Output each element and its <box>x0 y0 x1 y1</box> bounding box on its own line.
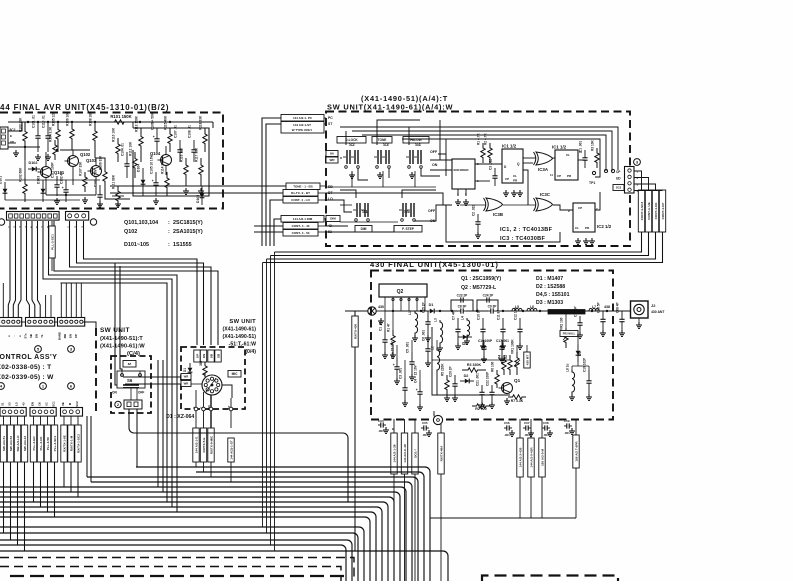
svg-text:C21 .001: C21 .001 <box>476 373 480 386</box>
svg-text:Q1: Q1 <box>514 378 521 383</box>
ground lower <box>444 395 510 408</box>
svg-text:UP: UP <box>196 354 200 358</box>
wire left col <box>385 311 437 382</box>
wire enc pins <box>458 189 466 196</box>
svg-text:W TYPE ONLY: W TYPE ONLY <box>292 128 312 132</box>
ground left col <box>382 352 431 410</box>
label RX/TX-1-M <box>68 425 74 462</box>
resistor R117 33K <box>195 147 204 186</box>
svg-text:4R8: 4R8 <box>432 411 436 417</box>
wire C4 pin1 <box>0 0 1 1</box>
svg-text:EN: EN <box>31 402 35 406</box>
resistor R112 10K <box>129 141 138 178</box>
svg-text:R109 33K: R109 33K <box>99 155 103 170</box>
ic IC1 1/2 b <box>550 145 583 181</box>
svg-text:R114 2.7K: R114 2.7K <box>161 158 165 174</box>
svg-text:Q104: Q104 <box>150 151 161 156</box>
resistor R4 <box>498 355 507 375</box>
resistor R114 2.7K <box>161 158 170 196</box>
switch S5 <box>399 203 415 221</box>
svg-text:RX/TX-48A: RX/TX-48A <box>440 445 444 462</box>
switch S1 <box>353 203 369 221</box>
svg-text:C6 .001: C6 .001 <box>422 330 426 341</box>
wire bus line y492 <box>0 492 400 581</box>
svg-text:SW-A/4-43: SW-A/4-43 <box>23 436 27 452</box>
wire g3c <box>77 462 79 497</box>
svg-text:SC2: SC2 <box>75 401 79 407</box>
svg-text:430 ANT: 430 ANT <box>651 310 665 314</box>
encoder U1 <box>452 159 479 196</box>
label TONE-1-EB <box>286 183 320 190</box>
ground input <box>378 318 384 324</box>
svg-text:R111 68K: R111 68K <box>112 174 116 189</box>
svg-text:PLL-3-EN: PLL-3-EN <box>32 436 36 451</box>
pin EB <box>328 185 333 189</box>
capacitor C24 2P <box>477 294 498 311</box>
resistor R3 330K <box>462 363 486 372</box>
svg-text:PLL-3-5C: PLL-3-5C <box>46 436 50 450</box>
wire sw mid runs <box>340 158 600 222</box>
wire LO rail <box>326 200 352 212</box>
svg-text:ON: ON <box>432 163 438 167</box>
label CONT-4-CP <box>659 190 665 232</box>
svg-text:R2: R2 <box>504 355 508 359</box>
resistor R104 3.3K <box>49 126 58 160</box>
svg-text:Q102: Q102 <box>80 152 91 157</box>
svg-text:R116 10K: R116 10K <box>180 147 184 162</box>
wire c4 right feeds <box>158 360 163 492</box>
svg-text:R117 33K: R117 33K <box>195 147 199 162</box>
wire dist h2 <box>77 221 204 345</box>
svg-text:C14 5P: C14 5P <box>574 305 578 317</box>
svg-text:DN: DN <box>35 334 39 338</box>
capacitor C17 .001 <box>496 339 509 356</box>
wire top rail 144 <box>8 122 213 128</box>
label 144A/2-1-ST <box>281 122 324 134</box>
transistor Q1 430 <box>499 378 521 394</box>
svg-text:VR1 100K: VR1 100K <box>511 339 515 354</box>
pin UD <box>616 177 621 181</box>
board outline SW UNIT C/4 <box>111 356 151 413</box>
svg-text:R107 33K: R107 33K <box>79 161 83 176</box>
diode D104 <box>137 164 146 196</box>
ground IC2 <box>575 238 595 244</box>
svg-text:CL: CL <box>513 174 517 178</box>
label 144A/2-1-DIM <box>281 216 324 223</box>
wire K down a <box>195 462 197 467</box>
ground Q103 area <box>35 154 121 207</box>
wire bus line y512 <box>0 512 376 581</box>
svg-text:C1 .001: C1 .001 <box>579 141 583 152</box>
svg-text:FR3 NULL: FR3 NULL <box>563 332 576 336</box>
text E 8 labels <box>392 418 463 431</box>
svg-text:CP: CP <box>557 174 561 178</box>
diode D1 <box>183 363 192 377</box>
label RX/TX-48A <box>438 433 444 474</box>
svg-text:CONT-4-CP: CONT-4-CP <box>661 203 665 220</box>
svg-text:STx: STx <box>24 333 28 339</box>
text ON S4 <box>432 163 438 167</box>
capacitor C25 2P <box>422 301 431 335</box>
wire y518 run <box>430 518 576 581</box>
svg-text:CONT-4- UE: CONT-4- UE <box>647 202 651 220</box>
connector 430 input <box>368 305 384 315</box>
diode D105 <box>196 186 204 205</box>
svg-text:L3: L3 <box>434 318 438 322</box>
wire strip1 down <box>0 0 1 1</box>
svg-text:C19 102P: C19 102P <box>583 357 587 372</box>
terminal mark 3 <box>634 159 641 166</box>
resistor R2 430 <box>504 355 512 375</box>
svg-text:C111 100P: C111 100P <box>51 162 55 178</box>
svg-text:L2: L2 <box>431 346 435 350</box>
svg-text:390: 390 <box>199 360 203 366</box>
svg-text:TONE: TONE <box>378 138 387 142</box>
svg-text:11: 11 <box>550 173 553 177</box>
svg-text:2SC1815(Y): 2SC1815(Y) <box>173 220 203 226</box>
board edge dashed A <box>0 558 354 582</box>
svg-text:+: + <box>153 135 155 139</box>
capacitor C08 4P <box>616 301 625 330</box>
svg-text:C9 3P: C9 3P <box>488 305 498 309</box>
svg-text:TP1: TP1 <box>589 181 595 185</box>
stripline <box>548 310 585 315</box>
capacitor C13 5P <box>597 301 606 330</box>
capacitor C19 102P <box>583 357 592 394</box>
svg-text:Q1 : 2SC1959(Y): Q1 : 2SC1959(Y) <box>461 276 501 282</box>
capacitor C05 .001 <box>421 421 432 437</box>
ground C16 C17 <box>481 356 505 362</box>
wire bundle down b <box>266 259 268 533</box>
svg-text:(X41-1490-61):W: (X41-1490-61):W <box>100 344 145 350</box>
svg-text:WR: WR <box>184 382 189 386</box>
svg-text:F. STEP: F. STEP <box>402 227 415 231</box>
label PLL-2-SC1 <box>49 226 55 258</box>
wire S4 net <box>409 127 446 176</box>
wire PC feed <box>262 118 281 246</box>
svg-text:PLL-2-SC1: PLL-2-SC1 <box>51 234 55 250</box>
resistor R109 33K <box>99 155 108 192</box>
terminal mark 6 <box>68 383 75 390</box>
svg-text:144 A/2-1-ST: 144 A/2-1-ST <box>293 123 311 127</box>
wire g2a <box>33 462 35 502</box>
svg-text:R3 330K: R3 330K <box>467 363 482 367</box>
svg-text::: : <box>168 229 170 235</box>
svg-text:C23 2P: C23 2P <box>457 294 469 298</box>
wire ctrl right pair <box>87 416 91 482</box>
svg-text:C108 .01: C108 .01 <box>188 125 192 138</box>
svg-text:C104 .01: C104 .01 <box>121 143 125 156</box>
label SW-A/4-53 <box>7 425 13 462</box>
svg-text:C06: C06 <box>504 421 510 425</box>
pin DIM <box>326 216 340 222</box>
ground encoder <box>455 199 469 205</box>
board outline SW UNIT D/4 <box>181 347 245 409</box>
svg-text:C103 .1 50V: C103 .1 50V <box>94 168 98 187</box>
resistor R1 4.7K <box>477 133 486 163</box>
switch S2 <box>343 142 359 168</box>
wire RF rail <box>385 310 631 312</box>
board outline bottom-left unit <box>10 576 345 581</box>
svg-text:SW-A/4-51: SW-A/4-51 <box>2 436 6 452</box>
xor gate IC3A <box>534 152 553 172</box>
wire sw top runs <box>340 127 618 177</box>
pin 53 <box>328 230 332 234</box>
svg-text:C08 4P: C08 4P <box>616 301 620 313</box>
unit title SW UNIT D/4 <box>223 319 257 355</box>
svg-text:C09: C09 <box>564 419 570 423</box>
resistor R107 33K <box>79 161 88 192</box>
pin BT <box>328 191 333 195</box>
svg-text:RX/TX-430: RX/TX-430 <box>354 324 358 340</box>
wire bus line y497 <box>0 497 394 581</box>
resistor R111 68K <box>112 174 121 207</box>
label CONT-4-UE <box>645 190 651 232</box>
unit title SW UNIT C/4 <box>100 327 145 357</box>
label RX/TX-9-MIC <box>208 428 214 462</box>
svg-text:CONT- 4 - LO: CONT- 4 - LO <box>291 198 310 202</box>
resistor R101 150K <box>108 114 134 124</box>
label 144A/2-3-435 <box>517 438 523 477</box>
label RX/TX-430 <box>352 316 358 347</box>
capacitor C9 3P <box>488 305 498 314</box>
wire input stub <box>345 310 385 312</box>
svg-text:C3 .001: C3 .001 <box>399 368 403 379</box>
resistor R103 33K <box>19 117 28 160</box>
text OFF S5 <box>428 209 436 213</box>
resistor R6 100 <box>491 361 500 388</box>
svg-text:L1: L1 <box>408 311 412 315</box>
svg-text:MR: MR <box>63 334 67 338</box>
svg-text:L7: L7 <box>592 305 596 309</box>
terminal mark 20 <box>0 219 5 225</box>
pin ST <box>328 122 333 126</box>
pin labels control top <box>7 332 78 340</box>
capacitor C108 .01 <box>188 125 197 162</box>
svg-text:C04: C04 <box>378 419 384 423</box>
pin numbers strip1 <box>7 226 56 228</box>
vr VR1 100K <box>511 339 521 375</box>
wire to J2 <box>613 310 631 312</box>
svg-text:VR2 100: VR2 100 <box>560 317 564 330</box>
svg-text:SB: SB <box>29 334 33 338</box>
svg-text:D2 : 1S2588: D2 : 1S2588 <box>536 284 565 290</box>
label PLL-3-CK <box>37 425 43 462</box>
wire 53 feed <box>254 231 283 233</box>
capacitor C107 .01 <box>174 125 183 162</box>
wire LO feed <box>270 200 283 246</box>
svg-text:R101 150K: R101 150K <box>110 114 131 119</box>
svg-text:D3 : M1303: D3 : M1303 <box>536 300 563 306</box>
wire 144 misc <box>95 158 130 199</box>
wire IC3A to IC1b <box>552 157 555 159</box>
pin 43 <box>328 224 332 228</box>
capacitor C10 3P <box>477 308 486 343</box>
svg-text:43: 43 <box>22 402 26 406</box>
svg-text:430 MT: 430 MT <box>526 355 530 366</box>
wire DIM feed <box>274 219 281 246</box>
connector control bottom R <box>61 408 83 417</box>
svg-text:R112 10K: R112 10K <box>129 141 133 156</box>
svg-text:IC3B: IC3B <box>493 212 503 217</box>
coil L1 <box>408 311 418 335</box>
label D-LOCK S2 <box>337 137 366 144</box>
svg-text:CONT-4-SC3: CONT-4-SC3 <box>640 202 644 221</box>
svg-text:Q102: Q102 <box>124 229 137 235</box>
connector 144 strip2 <box>66 212 89 221</box>
testpoint pads <box>604 169 614 172</box>
label SW-A/4-51 <box>0 425 6 462</box>
pin PC <box>328 116 333 120</box>
svg-text:53: 53 <box>8 402 12 406</box>
wire xor feed <box>446 139 560 242</box>
bushing 4R8 <box>432 411 443 425</box>
label 144A/2-1-38 <box>391 433 397 474</box>
ground C08 4P <box>619 330 625 336</box>
switch S3 <box>374 142 390 168</box>
svg-text:L6: L6 <box>530 305 534 309</box>
svg-text:D-LOCK: D-LOCK <box>345 138 358 142</box>
connector 8C2 <box>0 127 16 149</box>
unit title 144 FINAL AVR UNIT <box>0 103 169 112</box>
wire g1c <box>17 462 19 545</box>
svg-text:C105 10 16V: C105 10 16V <box>150 155 154 174</box>
label CONT-4-LO <box>283 197 318 204</box>
svg-text:L4: L4 <box>461 316 465 320</box>
svg-text:ON: ON <box>112 391 117 395</box>
svg-text:144 A/2-3-435: 144 A/2-3-435 <box>519 447 523 467</box>
capacitor C04 .001 <box>378 419 389 433</box>
wire encoder out <box>475 164 502 181</box>
board outline 430 FINAL UNIT <box>371 271 613 420</box>
wire mic right <box>222 385 232 398</box>
board outline SW UNIT A/4 <box>326 112 630 247</box>
svg-text:D1 : M1407: D1 : M1407 <box>536 276 563 282</box>
svg-text:144 A/2-1-E: 144 A/2-1-E <box>195 437 199 454</box>
svg-text:CP: CP <box>578 206 582 210</box>
wire BT rail <box>326 193 443 205</box>
capacitor C12 12P <box>514 307 523 343</box>
wire vr stub <box>517 345 527 352</box>
svg-text:DIM: DIM <box>330 217 336 221</box>
pin labels D4 top <box>194 350 221 362</box>
svg-text:SC1: SC1 <box>52 401 56 407</box>
svg-text:DIM: DIM <box>361 227 367 231</box>
svg-text:144 A/2-C-48: 144 A/2-C-48 <box>403 444 407 463</box>
wire ST feed <box>266 124 281 246</box>
text OFF S4 <box>430 150 438 154</box>
svg-text:SW UNIT: SW UNIT <box>229 319 256 325</box>
svg-text:OFF: OFF <box>138 391 144 395</box>
wire bundle down d <box>274 252 276 551</box>
svg-text:C07: C07 <box>524 421 530 425</box>
transistor Q104 <box>150 151 172 166</box>
wire g1b <box>10 462 12 540</box>
coil L5 <box>512 305 522 311</box>
capacitor C111 100P <box>51 162 60 196</box>
wire RXTX430 <box>355 311 368 551</box>
diode D3 <box>458 335 472 346</box>
svg-text:TL: TL <box>40 334 44 338</box>
svg-text:RX/TX-1-SC2: RX/TX-1-SC2 <box>77 434 81 453</box>
wire 430 bottom stubs <box>394 419 576 438</box>
terminal mark 2 <box>115 401 121 407</box>
svg-text:J2: J2 <box>651 303 656 308</box>
svg-text:438: 438 <box>604 305 610 309</box>
svg-text:(X41-1490-51):T: (X41-1490-51):T <box>100 336 143 342</box>
svg-text:IC1 1/2: IC1 1/2 <box>502 144 517 149</box>
ground J2 <box>636 322 642 328</box>
connector 144 strip1 <box>7 212 60 221</box>
switch S4 <box>406 142 422 168</box>
svg-text:166 A/2 T-6PR: 166 A/2 T-6PR <box>575 441 579 462</box>
capacitor C101 .01 <box>32 115 41 152</box>
svg-text:R110 10K: R110 10K <box>112 127 116 142</box>
wire stripA jog <box>3 221 21 318</box>
svg-text:C107 .01: C107 .01 <box>174 125 178 138</box>
svg-text:SB: SB <box>217 353 221 358</box>
wire dist h7 <box>61 283 168 502</box>
switch S6 <box>117 371 145 388</box>
capacitor C23 2P <box>451 294 473 311</box>
coil L7 <box>589 305 599 311</box>
wire CONT labels down <box>263 232 663 263</box>
svg-text:144 A/2-1-38: 144 A/2-1-38 <box>393 444 397 462</box>
wire J2 gnd <box>638 318 640 322</box>
wire stripB jog <box>27 221 52 318</box>
wire 144 lower rail <box>133 195 209 197</box>
svg-text:C3 .022: C3 .022 <box>489 159 493 170</box>
wire bundle down a <box>262 263 264 528</box>
wire Q102 collector <box>72 150 74 185</box>
svg-text:.001: .001 <box>564 431 570 435</box>
svg-text:C106 + 50V: C106 + 50V <box>151 112 155 130</box>
svg-text:C20 2P: C20 2P <box>449 365 453 377</box>
wire encoder feeds <box>430 120 452 170</box>
svg-text:C13 5P: C13 5P <box>597 301 601 313</box>
svg-text:S6: S6 <box>127 378 133 383</box>
svg-text:144 A/2-1 DIM: 144 A/2-1 DIM <box>293 217 313 221</box>
capacitor C103 .1 50V <box>94 168 103 207</box>
svg-text:C11 8P: C11 8P <box>497 309 501 320</box>
svg-text:R108 18K: R108 18K <box>89 111 93 126</box>
wire EB rail <box>326 171 436 187</box>
svg-text:D4,5 : 1S5101: D4,5 : 1S5101 <box>536 292 570 298</box>
svg-text:Q2: Q2 <box>397 289 404 295</box>
ground IC1a <box>503 190 523 196</box>
capacitor C2 .022 <box>472 205 481 232</box>
svg-text:R104 3.3K: R104 3.3K <box>49 126 53 142</box>
capacitor C14 5P <box>574 305 583 332</box>
unit title 430 FINAL UNIT <box>370 260 499 269</box>
svg-text:C8 3P: C8 3P <box>458 305 468 309</box>
wire K down d <box>230 462 232 482</box>
svg-text:+: + <box>416 388 418 392</box>
capacitor C2 22 16V <box>391 340 400 378</box>
svg-text:R4: R4 <box>498 355 502 359</box>
svg-text:C5 .001: C5 .001 <box>406 342 410 353</box>
svg-text:D5: D5 <box>578 351 582 356</box>
svg-text:51: 51 <box>1 402 5 406</box>
capacitor C7 4P <box>452 310 461 343</box>
svg-text:D1: D1 <box>429 303 434 307</box>
svg-text:Q103: Q103 <box>86 158 97 163</box>
svg-text:R6 100: R6 100 <box>491 361 495 372</box>
svg-text:CONT- 4 - 43: CONT- 4 - 43 <box>292 224 310 228</box>
wire lower cluster frame <box>432 327 510 395</box>
svg-text:144 FINAL AVR UNIT(X45-1310-01: 144 FINAL AVR UNIT(X45-1310-01)(B/2) <box>0 103 169 112</box>
wire bus line y533 <box>0 533 358 581</box>
